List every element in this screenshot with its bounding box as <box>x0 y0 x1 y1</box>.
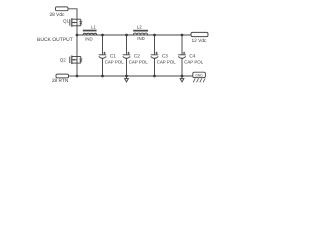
svg-text:IND: IND <box>85 36 92 41</box>
transistor Q1 <box>70 18 83 27</box>
svg-text:CAP POL: CAP POL <box>105 60 125 65</box>
svg-text:CAP POL: CAP POL <box>157 60 177 65</box>
top rail buck output to 12Vdc <box>77 34 191 36</box>
capacitor C4 <box>178 35 186 76</box>
svg-text:C4: C4 <box>189 54 195 59</box>
svg-text:Q1: Q1 <box>63 19 70 24</box>
inductor L2 <box>133 30 148 35</box>
power ground arrow under C4 <box>180 76 184 82</box>
svg-text:IND: IND <box>137 36 144 41</box>
svg-text:L1: L1 <box>91 24 96 29</box>
capacitor C3 <box>151 35 159 76</box>
svg-text:BUCK OUTPUT: BUCK OUTPUT <box>37 37 73 43</box>
connector 12 Vdc <box>191 32 208 36</box>
wire 28Vdc to Q1 drain <box>68 9 77 18</box>
connector 28 Vdc <box>56 7 69 11</box>
svg-text:C2: C2 <box>134 54 140 59</box>
connector 28 RTN <box>56 74 69 78</box>
svg-text:28 Vdc: 28 Vdc <box>50 12 66 18</box>
svg-text:Q2: Q2 <box>60 57 67 62</box>
bottom rail <box>77 75 193 77</box>
capacitor C2 <box>123 35 131 76</box>
junction node dots bottom rail <box>76 75 79 78</box>
svg-text:CAP POL: CAP POL <box>184 60 204 65</box>
wire 28 RTN to bottom rail <box>69 75 78 77</box>
svg-text:L2: L2 <box>137 24 142 29</box>
wire Q1 source to buck node <box>76 18 78 36</box>
svg-text:C1: C1 <box>110 54 116 59</box>
transistor Q2 <box>70 56 83 65</box>
ground symbol GND <box>193 72 206 82</box>
capacitor C1 <box>99 35 107 76</box>
svg-text:CAP POL: CAP POL <box>129 60 149 65</box>
power ground arrow under C2 <box>125 76 129 82</box>
junction node dots top rail <box>76 34 184 78</box>
wire buck node to Q2 and to 28 RTN rail <box>76 35 78 76</box>
inductor L1 <box>83 30 97 35</box>
svg-text:C3: C3 <box>162 54 168 59</box>
svg-text:12 Vdc: 12 Vdc <box>192 38 208 44</box>
svg-text:28 RTN: 28 RTN <box>52 78 69 84</box>
svg-text:GND: GND <box>195 74 203 78</box>
